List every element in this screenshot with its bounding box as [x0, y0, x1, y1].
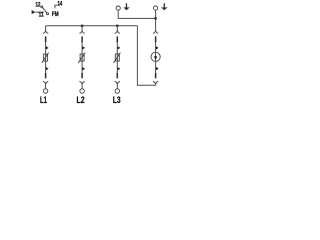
junction dot bus L2	[81, 25, 83, 27]
plug blade spark gap top	[155, 37, 157, 43]
varistor L2	[78, 53, 85, 63]
spark gap circle	[151, 52, 160, 61]
varistor path L3 lead	[116, 36, 118, 78]
thermal disconnector flag spark gap upper	[156, 46, 159, 49]
varistor path L2 lead	[81, 36, 83, 78]
svg-text:11: 11	[39, 12, 44, 19]
plug-in fork contact L2 top	[79, 26, 84, 34]
plug-in fork contact L3 top	[115, 26, 120, 34]
svg-text:L3: L3	[113, 95, 121, 105]
plug-in fork contact spark gap top	[153, 30, 158, 33]
plug-in fork contact L1 top	[43, 26, 48, 34]
plug-in fork contact L1 bottom	[43, 81, 48, 89]
svg-text:L1: L1	[40, 95, 47, 105]
FM contact 12 terminal circle	[41, 6, 43, 8]
top bus wire	[46, 25, 138, 27]
terminal circle L1	[43, 89, 48, 94]
spark gap lead lower	[155, 61, 157, 78]
thermal disconnector flag L1 lower	[46, 67, 49, 70]
spark gap internal arrow	[154, 56, 157, 60]
plug-in fork contact L2 bottom	[79, 81, 84, 89]
varistor path L1 lead	[45, 36, 47, 78]
varistor L3	[113, 53, 120, 63]
plug-in fork contact L3 bottom	[115, 81, 120, 89]
plug blade L3 bottom	[116, 73, 118, 78]
wire from terminal X1 down and right to X2 net	[118, 10, 155, 18]
svg-text:12: 12	[36, 2, 41, 9]
plug blade L2 bottom	[81, 73, 83, 78]
spark gap lead upper	[155, 36, 157, 52]
wire from terminal X2 down to spark gap fork	[155, 10, 157, 30]
FM contact 14 hook	[55, 5, 58, 8]
PE terminal X2 circle	[154, 6, 158, 10]
thermal disconnector flag L3 upper	[118, 46, 121, 49]
FM contact 11 terminal circle	[47, 13, 49, 15]
junction dot X2 net	[154, 17, 156, 19]
bus riser wire down to spark gap bottom	[137, 26, 155, 86]
signal contact FM actuator arrow	[32, 10, 44, 14]
plug blade L2 top	[81, 37, 83, 43]
plug blade L1 top	[45, 37, 47, 43]
thermal disconnector flag L2 lower	[82, 67, 85, 70]
junction dot bus L3	[116, 25, 118, 27]
thermal disconnector flag L2 upper	[82, 46, 85, 49]
thermal disconnector flag spark gap lower	[156, 67, 159, 70]
earthing arrow at X1	[123, 3, 129, 10]
plug-in fork contact spark gap bottom	[153, 81, 158, 85]
varistor L1	[42, 53, 49, 63]
FM switch arm	[43, 8, 47, 13]
spark gap internal wire	[155, 52, 157, 61]
svg-text:FM: FM	[52, 11, 59, 18]
thermal disconnector flag L1 upper	[46, 46, 49, 49]
terminal circle L2	[80, 89, 85, 94]
plug blade L1 bottom	[45, 73, 47, 78]
thermal disconnector flag L3 lower	[118, 67, 121, 70]
earthing arrow at X2	[161, 3, 167, 10]
svg-text:L2: L2	[77, 95, 85, 105]
plug blade L3 top	[116, 37, 118, 43]
plug blade spark gap bottom	[155, 73, 157, 78]
terminal circle L3	[115, 89, 120, 94]
svg-text:14: 14	[58, 1, 63, 8]
PE terminal X1 circle	[116, 6, 120, 10]
